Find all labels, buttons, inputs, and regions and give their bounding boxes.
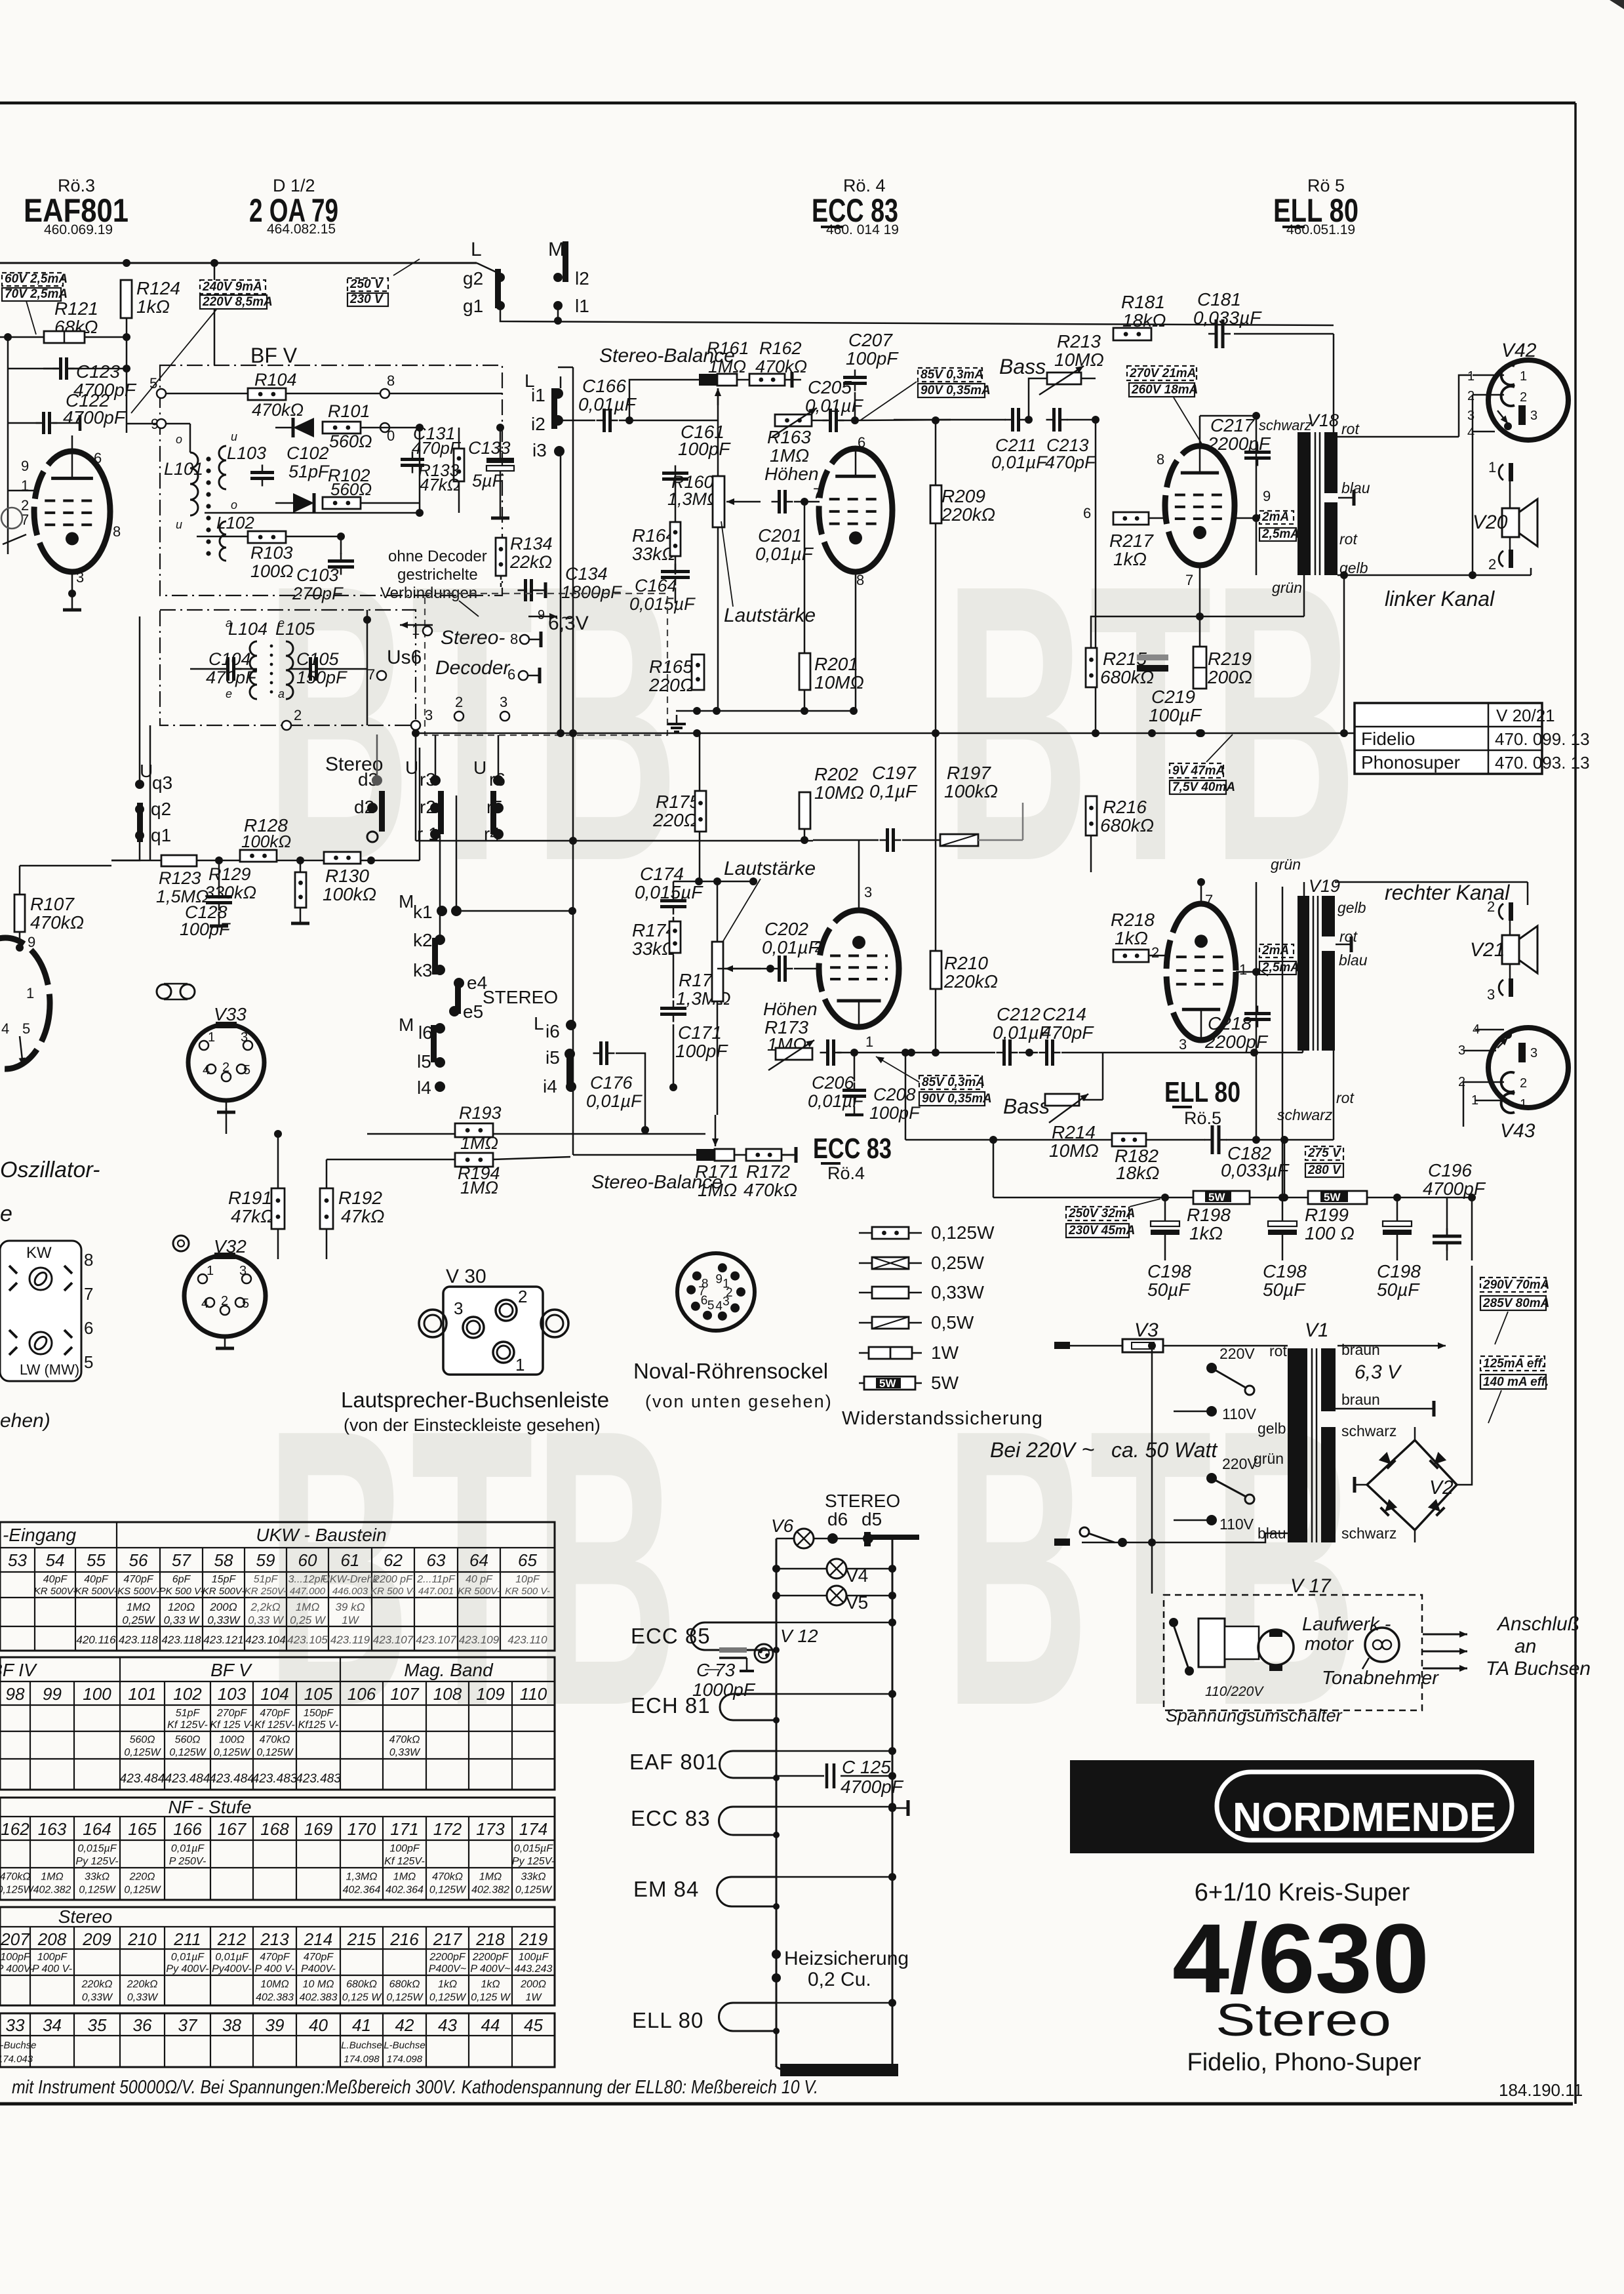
svg-text:63: 63: [427, 1550, 446, 1570]
svg-text:R175: R175: [656, 792, 700, 812]
svg-text:470kΩ: 470kΩ: [30, 912, 84, 933]
svg-text:110V: 110V: [1219, 1516, 1254, 1533]
svg-text:1MΩ: 1MΩ: [460, 1178, 498, 1197]
svg-text:443.243: 443.243: [515, 1963, 553, 1975]
svg-text:V 12: V 12: [780, 1626, 818, 1646]
svg-text:99: 99: [43, 1684, 62, 1704]
svg-text:18kΩ: 18kΩ: [1116, 1163, 1159, 1183]
svg-text:58: 58: [214, 1550, 233, 1570]
svg-text:motor: motor: [1305, 1634, 1354, 1655]
svg-text:470pF: 470pF: [1045, 453, 1096, 472]
svg-text:EM 84: EM 84: [633, 1877, 699, 1901]
svg-text:62: 62: [384, 1550, 403, 1570]
svg-text:0,01µF: 0,01µF: [171, 1843, 205, 1855]
svg-text:220V: 220V: [1222, 1455, 1258, 1472]
svg-text:47kΩ: 47kΩ: [420, 475, 460, 494]
svg-text:e: e: [278, 616, 285, 630]
svg-text:M: M: [399, 1015, 414, 1035]
svg-text:423.107: 423.107: [416, 1634, 456, 1646]
svg-text:61: 61: [341, 1550, 360, 1570]
svg-text:41: 41: [352, 2015, 371, 2035]
svg-text:rot: rot: [1339, 928, 1358, 945]
svg-text:8: 8: [387, 372, 395, 389]
svg-text:57: 57: [172, 1550, 191, 1570]
svg-text:1: 1: [1488, 459, 1496, 475]
svg-text:36: 36: [133, 2015, 152, 2035]
svg-text:215: 215: [347, 1929, 376, 1949]
svg-text:2,5mA: 2,5mA: [1261, 961, 1299, 975]
svg-text:42: 42: [395, 2015, 414, 2035]
svg-text:470kΩ: 470kΩ: [0, 1871, 30, 1882]
svg-text:54: 54: [46, 1550, 65, 1570]
svg-text:l6: l6: [418, 1022, 433, 1043]
svg-text:2: 2: [814, 939, 822, 956]
svg-text:8: 8: [113, 523, 121, 540]
svg-text:L: L: [471, 239, 482, 260]
svg-text:56: 56: [129, 1550, 148, 1570]
svg-text:KR 500V-: KR 500V-: [458, 1586, 500, 1597]
svg-text:100pF: 100pF: [37, 1952, 68, 1963]
svg-text:1: 1: [412, 622, 420, 638]
svg-text:2200pF: 2200pF: [472, 1952, 509, 1963]
svg-text:1000pF: 1000pF: [692, 1680, 756, 1700]
svg-text:C123: C123: [76, 361, 120, 382]
svg-text:1kΩ: 1kΩ: [438, 1979, 457, 1990]
svg-text:3: 3: [76, 569, 84, 586]
svg-text:150pF: 150pF: [304, 1708, 334, 1719]
svg-text:KR 500 V-: KR 500 V-: [505, 1586, 550, 1597]
svg-text:NORDMENDE: NORDMENDE: [1233, 1795, 1496, 1840]
svg-text:1MΩ: 1MΩ: [41, 1871, 63, 1882]
svg-text:(von unten gesehen): (von unten gesehen): [645, 1392, 833, 1411]
svg-text:R219: R219: [1208, 649, 1252, 669]
svg-text:15pF: 15pF: [212, 1574, 237, 1585]
svg-text:C166: C166: [582, 376, 626, 396]
svg-text:470kΩ: 470kΩ: [743, 1180, 797, 1200]
svg-text:1W: 1W: [931, 1342, 959, 1363]
svg-text:423.484: 423.484: [120, 1772, 165, 1786]
svg-text:47kΩ: 47kΩ: [341, 1206, 384, 1226]
svg-text:402.382: 402.382: [471, 1885, 509, 1896]
svg-text:100kΩ: 100kΩ: [944, 781, 998, 801]
svg-text:207: 207: [0, 1929, 30, 1949]
svg-text:290V 70mA: 290V 70mA: [1482, 1278, 1549, 1292]
svg-text:P 400 V-: P 400 V-: [32, 1963, 72, 1975]
svg-text:g2: g2: [463, 268, 483, 289]
svg-text:d6: d6: [827, 1509, 848, 1529]
svg-text:Noval-Röhrensockel: Noval-Röhrensockel: [633, 1359, 828, 1383]
svg-text:C104: C104: [208, 649, 251, 669]
svg-text:43: 43: [438, 2015, 457, 2035]
svg-text:6: 6: [1083, 505, 1091, 521]
svg-text:V20: V20: [1473, 512, 1508, 533]
svg-text:an: an: [1515, 1636, 1536, 1657]
svg-text:560Ω: 560Ω: [330, 479, 372, 499]
svg-text:R213: R213: [1057, 331, 1101, 352]
svg-text:172: 172: [433, 1819, 462, 1839]
svg-text:i4: i4: [543, 1076, 557, 1097]
svg-text:40 pF: 40 pF: [465, 1574, 493, 1585]
svg-text:2: 2: [1520, 1076, 1527, 1091]
svg-text:V3: V3: [1134, 1319, 1159, 1341]
svg-text:~: ~: [561, 607, 573, 629]
svg-text:270V 21mA: 270V 21mA: [1129, 367, 1196, 380]
svg-text:7: 7: [367, 666, 375, 683]
svg-text:213: 213: [260, 1929, 289, 1949]
svg-text:Lautsprecher-Buchsenleiste: Lautsprecher-Buchsenleiste: [341, 1388, 609, 1412]
svg-text:0,125 W: 0,125 W: [342, 1992, 382, 2003]
svg-text:KW: KW: [26, 1244, 52, 1262]
svg-text:C201: C201: [758, 525, 802, 546]
svg-text:ELL 80: ELL 80: [1164, 1076, 1240, 1108]
svg-text:102: 102: [173, 1684, 202, 1704]
svg-text:R130: R130: [325, 866, 369, 886]
svg-text:Fidelio: Fidelio: [1361, 729, 1415, 749]
svg-text:560Ω: 560Ω: [329, 432, 372, 451]
svg-text:0,5W: 0,5W: [931, 1312, 974, 1333]
svg-text:Kf 125V-: Kf 125V-: [167, 1720, 208, 1731]
svg-text:C198: C198: [1147, 1261, 1191, 1281]
svg-text:Py 125V-: Py 125V-: [512, 1856, 555, 1867]
svg-text:5: 5: [84, 1352, 93, 1372]
svg-text:P400V-: P400V-: [301, 1963, 336, 1975]
svg-text:V33: V33: [214, 1004, 247, 1024]
svg-text:560Ω: 560Ω: [130, 1735, 155, 1746]
svg-text:1kΩ: 1kΩ: [1113, 549, 1147, 569]
svg-text:0,125W: 0,125W: [256, 1747, 294, 1758]
svg-text:270pF: 270pF: [292, 584, 344, 603]
svg-text:240V 9mA: 240V 9mA: [202, 280, 262, 294]
svg-text:100pF: 100pF: [869, 1103, 921, 1123]
svg-text:285V 80mA: 285V 80mA: [1482, 1297, 1549, 1310]
svg-text:BF V: BF V: [250, 344, 298, 367]
svg-text:P 400 V-: P 400 V-: [254, 1963, 294, 1975]
svg-text:q3: q3: [152, 773, 172, 793]
svg-text:U: U: [473, 757, 486, 778]
svg-text:214: 214: [304, 1929, 332, 1949]
svg-text:0,33 W: 0,33 W: [164, 1614, 201, 1626]
svg-text:Us6: Us6: [387, 647, 422, 668]
svg-text:4: 4: [201, 1297, 208, 1311]
svg-text:schwarz: schwarz: [1341, 1422, 1396, 1439]
svg-text:C214: C214: [1042, 1004, 1086, 1024]
svg-text:0,25W: 0,25W: [931, 1253, 984, 1273]
svg-text:C133: C133: [468, 438, 511, 458]
svg-text:Py400V-: Py400V-: [212, 1963, 252, 1975]
svg-text:35: 35: [88, 2015, 107, 2035]
svg-text:P 400V-: P 400V-: [0, 1963, 33, 1975]
svg-text:0,33 W: 0,33 W: [248, 1614, 285, 1626]
svg-text:1: 1: [1520, 369, 1527, 384]
svg-text:5W: 5W: [1208, 1191, 1225, 1203]
svg-text:Oszillator-: Oszillator-: [0, 1157, 100, 1182]
svg-text:230 V: 230 V: [349, 292, 384, 306]
svg-text:37: 37: [178, 2015, 198, 2035]
svg-text:0,01µF: 0,01µF: [215, 1952, 248, 1963]
svg-text:Py 125V-: Py 125V-: [75, 1856, 118, 1867]
svg-text:R161: R161: [707, 338, 749, 358]
svg-text:braun: braun: [1341, 1391, 1380, 1408]
svg-text:V19: V19: [1309, 876, 1340, 896]
svg-text:33kΩ: 33kΩ: [521, 1871, 546, 1882]
svg-text:110/220V: 110/220V: [1205, 1684, 1264, 1699]
svg-text:470pF: 470pF: [260, 1708, 290, 1719]
svg-text:P 250V-: P 250V-: [169, 1856, 207, 1867]
svg-text:0,125W: 0,125W: [124, 1747, 161, 1758]
svg-text:100pF: 100pF: [0, 1952, 31, 1963]
svg-text:i1: i1: [531, 385, 545, 405]
svg-text:64: 64: [469, 1550, 488, 1570]
svg-text:M: M: [548, 239, 564, 260]
svg-text:1MΩ: 1MΩ: [770, 445, 809, 466]
svg-text:1: 1: [207, 1264, 214, 1278]
svg-text:0,033µF: 0,033µF: [1221, 1160, 1290, 1180]
svg-text:220kΩ: 220kΩ: [941, 504, 995, 525]
svg-text:blau: blau: [1341, 479, 1370, 496]
svg-text:9: 9: [28, 934, 35, 950]
svg-text:169: 169: [304, 1819, 332, 1839]
svg-text:C171: C171: [678, 1022, 722, 1043]
svg-text:1800pF: 1800pF: [561, 582, 622, 602]
svg-text:106: 106: [347, 1684, 376, 1704]
svg-text:2mA: 2mA: [1261, 510, 1289, 524]
svg-text:220V: 220V: [1219, 1345, 1255, 1362]
svg-text:0,2 Cu.: 0,2 Cu.: [808, 1969, 871, 1990]
svg-text:g1: g1: [463, 296, 483, 316]
svg-text:L-Buchse: L-Buchse: [384, 2040, 425, 2051]
svg-text:7: 7: [813, 485, 821, 502]
svg-text:423.110: 423.110: [507, 1634, 547, 1646]
svg-text:22kΩ: 22kΩ: [509, 552, 552, 572]
svg-text:Bei 220V: Bei 220V: [990, 1438, 1077, 1462]
svg-text:(von der Einsteckleiste gesehe: (von der Einsteckleiste gesehen): [344, 1415, 601, 1435]
svg-text:3: 3: [723, 1295, 730, 1308]
svg-text:R199: R199: [1305, 1205, 1349, 1225]
svg-text:100kΩ: 100kΩ: [241, 832, 291, 851]
svg-text:3: 3: [1467, 409, 1475, 423]
svg-text:Anschluß: Anschluß: [1496, 1613, 1579, 1635]
svg-text:a: a: [226, 616, 232, 630]
svg-text:5: 5: [243, 1063, 250, 1077]
svg-text:8: 8: [84, 1250, 93, 1270]
svg-text:KR 250V-: KR 250V-: [245, 1586, 287, 1597]
svg-text:39 kΩ: 39 kΩ: [335, 1601, 365, 1613]
svg-text:680kΩ: 680kΩ: [389, 1979, 420, 1990]
svg-text:1MΩ: 1MΩ: [460, 1133, 498, 1153]
svg-text:0,125W: 0,125W: [515, 1885, 553, 1896]
svg-text:3: 3: [241, 1030, 248, 1045]
svg-text:grün: grün: [1271, 856, 1301, 873]
svg-text:0,125W: 0,125W: [931, 1222, 995, 1243]
svg-text:C196: C196: [1428, 1160, 1472, 1180]
svg-text:Bass: Bass: [999, 355, 1046, 378]
svg-text:38: 38: [222, 2015, 241, 2035]
svg-text:1MΩ: 1MΩ: [296, 1601, 320, 1613]
svg-text:330kΩ: 330kΩ: [205, 883, 256, 902]
svg-text:208: 208: [37, 1929, 67, 1949]
svg-text:Höhen: Höhen: [764, 464, 819, 484]
svg-text:R218: R218: [1111, 910, 1155, 930]
svg-text:1kΩ: 1kΩ: [1189, 1223, 1223, 1243]
svg-text:~: ~: [1082, 1438, 1095, 1462]
svg-text:BF IV: BF IV: [0, 1660, 37, 1680]
svg-text:170: 170: [347, 1819, 376, 1839]
svg-text:446.003: 446.003: [332, 1586, 368, 1597]
svg-text:51pF: 51pF: [176, 1708, 201, 1719]
svg-text:65: 65: [518, 1550, 537, 1570]
svg-text:R121: R121: [54, 298, 98, 319]
svg-text:6: 6: [94, 450, 102, 466]
svg-text:C202: C202: [764, 919, 808, 939]
svg-text:101: 101: [128, 1684, 156, 1704]
svg-text:470kΩ: 470kΩ: [432, 1871, 463, 1882]
svg-text:220Ω: 220Ω: [129, 1871, 155, 1882]
svg-text:C208: C208: [873, 1085, 916, 1104]
svg-text:6,3 V: 6,3 V: [1355, 1361, 1402, 1383]
svg-text:560Ω: 560Ω: [175, 1735, 201, 1746]
svg-text:162: 162: [1, 1819, 30, 1839]
svg-text:2200pF: 2200pF: [429, 1952, 465, 1963]
svg-text:3: 3: [1179, 1036, 1187, 1053]
svg-text:470pF: 470pF: [260, 1952, 290, 1963]
svg-text:250V 32mA: 250V 32mA: [1068, 1207, 1135, 1220]
svg-text:1: 1: [515, 1355, 525, 1375]
svg-text:10MΩ: 10MΩ: [814, 782, 864, 803]
svg-text:90V 0,35mA: 90V 0,35mA: [922, 1092, 992, 1106]
svg-text:2: 2: [1520, 390, 1527, 405]
svg-text:R101: R101: [328, 401, 370, 421]
svg-text:174: 174: [519, 1819, 547, 1839]
svg-text:V6: V6: [771, 1516, 794, 1536]
svg-text:R202: R202: [814, 764, 858, 784]
svg-text:ECC 83: ECC 83: [813, 1133, 892, 1165]
svg-text:0,1µF: 0,1µF: [869, 781, 918, 801]
svg-text:R165: R165: [649, 656, 693, 677]
svg-text:R129: R129: [208, 864, 251, 884]
svg-text:schwarz: schwarz: [1341, 1525, 1396, 1542]
svg-text:8: 8: [856, 572, 864, 588]
svg-text:C198: C198: [1377, 1261, 1421, 1281]
svg-text:R217: R217: [1109, 531, 1154, 551]
svg-text:280 V: 280 V: [1307, 1163, 1341, 1177]
svg-text:LW (MW): LW (MW): [20, 1361, 79, 1378]
svg-text:Py 400V-: Py 400V-: [166, 1963, 208, 1975]
svg-text:39: 39: [266, 2015, 285, 2035]
svg-text:3: 3: [425, 707, 433, 723]
svg-text:0,33W: 0,33W: [389, 1747, 421, 1758]
svg-text:e5: e5: [463, 1001, 483, 1022]
svg-text:212: 212: [217, 1929, 247, 1949]
svg-text:2,5mA: 2,5mA: [1261, 527, 1299, 541]
svg-text:NF - Stufe: NF - Stufe: [168, 1797, 251, 1817]
svg-text:1: 1: [1520, 1097, 1527, 1112]
svg-text:R172: R172: [746, 1161, 790, 1182]
svg-text:0,125W: 0,125W: [169, 1747, 207, 1758]
svg-text:C218: C218: [1208, 1013, 1252, 1034]
svg-text:C205: C205: [808, 377, 852, 397]
svg-text:5W: 5W: [879, 1377, 896, 1390]
svg-text:200Ω: 200Ω: [520, 1979, 546, 1990]
svg-text:2: 2: [518, 1287, 527, 1306]
svg-text:447.001: 447.001: [418, 1586, 454, 1597]
svg-text:8: 8: [702, 1278, 709, 1291]
svg-text:4: 4: [203, 1063, 210, 1077]
svg-text:R198: R198: [1187, 1205, 1231, 1225]
svg-text:4: 4: [1467, 426, 1475, 440]
svg-text:174.098: 174.098: [387, 2053, 423, 2064]
svg-text:Lautstärke: Lautstärke: [724, 605, 816, 626]
svg-text:C212: C212: [997, 1004, 1040, 1024]
svg-text:275 V: 275 V: [1307, 1146, 1341, 1160]
svg-text:2: 2: [221, 1294, 228, 1308]
svg-text:120Ω: 120Ω: [168, 1601, 195, 1613]
svg-text:Stereo-: Stereo-: [441, 627, 505, 649]
svg-text:10MΩ: 10MΩ: [260, 1979, 288, 1990]
svg-text:184.190.11: 184.190.11: [1499, 2080, 1583, 2100]
svg-text:423.107: 423.107: [373, 1634, 414, 1646]
svg-text:40pF: 40pF: [43, 1574, 68, 1585]
svg-text:167: 167: [218, 1819, 247, 1839]
svg-text:100pF: 100pF: [180, 919, 231, 939]
svg-text:k2: k2: [413, 930, 433, 950]
svg-text:rot: rot: [1341, 420, 1360, 437]
svg-text:6: 6: [858, 434, 865, 451]
svg-text:L101: L101: [164, 459, 203, 479]
svg-text:rot: rot: [1269, 1342, 1287, 1359]
svg-text:ohne Decoder: ohne Decoder: [388, 548, 487, 565]
svg-text:Phonosuper: Phonosuper: [1361, 752, 1460, 773]
svg-text:2: 2: [294, 707, 302, 723]
svg-text:33: 33: [6, 2015, 25, 2035]
svg-text:V 17: V 17: [1290, 1575, 1332, 1597]
svg-text:Heizsicherung: Heizsicherung: [784, 1948, 909, 1969]
svg-text:98: 98: [6, 1684, 25, 1704]
svg-text:168: 168: [260, 1819, 289, 1839]
svg-text:0,125W: 0,125W: [214, 1747, 251, 1758]
svg-text:470pF: 470pF: [206, 668, 257, 687]
svg-text:schwarz: schwarz: [1277, 1106, 1333, 1123]
svg-text:Höhen: Höhen: [763, 999, 818, 1019]
svg-text:44: 44: [481, 2015, 500, 2035]
svg-text:5W: 5W: [1324, 1191, 1341, 1203]
svg-text:R197: R197: [947, 763, 991, 783]
svg-text:220kΩ: 220kΩ: [127, 1979, 158, 1990]
svg-text:blau: blau: [1339, 952, 1368, 969]
svg-text:0,01µF: 0,01µF: [586, 1091, 643, 1111]
svg-text:o: o: [231, 498, 237, 512]
svg-text:R216: R216: [1103, 797, 1147, 817]
svg-text:209: 209: [82, 1929, 111, 1949]
svg-text:219: 219: [519, 1929, 547, 1949]
svg-text:grün: grün: [1254, 1450, 1284, 1467]
svg-text:B-Buchse: B-Buchse: [0, 2040, 37, 2051]
svg-text:e: e: [0, 1201, 12, 1226]
svg-text:C164: C164: [635, 576, 677, 595]
svg-text:50µF: 50µF: [1263, 1279, 1306, 1300]
svg-text:R201: R201: [814, 654, 858, 674]
svg-text:464.082.15: 464.082.15: [267, 222, 336, 237]
svg-text:8: 8: [1157, 451, 1164, 468]
svg-text:9: 9: [21, 458, 29, 474]
svg-text:0,01µF: 0,01µF: [171, 1952, 205, 1963]
svg-text:0,01µF: 0,01µF: [762, 937, 821, 957]
svg-text:107: 107: [390, 1684, 420, 1704]
svg-text:5W: 5W: [931, 1373, 959, 1393]
svg-text:k1: k1: [413, 902, 433, 922]
svg-text:KR 500V-: KR 500V-: [75, 1586, 117, 1597]
svg-text:R192: R192: [338, 1188, 382, 1208]
svg-text:1kΩ: 1kΩ: [1115, 928, 1148, 948]
